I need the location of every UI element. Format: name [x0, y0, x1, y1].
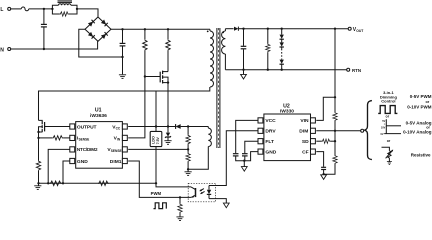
pin VCC — [112, 124, 127, 130]
node DIM terminal — [361, 129, 364, 132]
wire bridge minus to cap bottom — [79, 29, 123, 57]
transformer T1 secondary winding — [222, 29, 226, 70]
svg-text:GND: GND — [77, 159, 88, 165]
svg-text:Control: Control — [381, 98, 395, 103]
wire L to fuse — [11, 8, 22, 10]
pin DRV — [258, 128, 276, 134]
pin VIN-U2 — [300, 118, 315, 124]
pin NTC/DIM2 — [70, 147, 98, 152]
diode Z1 zener to ground — [164, 127, 171, 145]
resistor R-aux-bottom — [186, 149, 190, 169]
wire DC bus — [111, 28, 210, 30]
svg-text:OUT: OUT — [356, 29, 364, 33]
svg-text:CC: CC — [116, 126, 121, 130]
node bus junctions — [121, 28, 123, 30]
LED string D1..Dn — [280, 29, 284, 71]
svg-text:U1: U1 — [95, 107, 102, 113]
opto-coupler OC1 — [188, 183, 215, 202]
svg-text:or: or — [387, 139, 391, 143]
svg-text:N: N — [0, 47, 4, 53]
svg-text:RTN: RTN — [352, 68, 361, 73]
ground earth aux — [185, 169, 192, 175]
pin VIN — [114, 135, 128, 141]
wire choke to bridge — [77, 9, 98, 17]
PWM square wave icon — [378, 106, 397, 114]
wire GND-U2 drop — [244, 152, 258, 161]
svg-text:DIM1: DIM1 — [110, 159, 122, 165]
svg-text:U2: U2 — [283, 103, 290, 109]
node VOUT terminal — [348, 27, 364, 33]
bridge rectifier BR1 — [85, 17, 111, 41]
wire GND drop — [63, 161, 70, 183]
transistor Q1 power MOSFET — [145, 71, 169, 127]
transformer T1 core — [217, 28, 220, 148]
svg-text:L: L — [0, 7, 3, 13]
ground earth below C-bus — [119, 75, 126, 79]
pin VSENSE — [107, 147, 127, 153]
wire VCC line — [128, 126, 175, 128]
resistor R-bus1 — [143, 29, 147, 76]
pin DIM — [299, 128, 315, 134]
svg-text:VIN: VIN — [300, 118, 309, 124]
transistor Q2 startup MOSFET — [37, 120, 70, 137]
svg-text:or: or — [425, 100, 429, 104]
diode D-out rectifier — [225, 27, 243, 31]
resistor R-sd — [316, 139, 336, 143]
wire VOUT feed down — [334, 29, 336, 98]
text right labels — [403, 94, 432, 158]
capacitor C-bus — [120, 29, 126, 74]
inductor L-aux auxiliary winding — [188, 127, 211, 170]
svg-text:FLT: FLT — [265, 139, 274, 145]
svg-text:7.5V: 7.5V — [156, 136, 160, 144]
wire primary return rail — [39, 87, 210, 120]
pin GND — [70, 158, 88, 164]
svg-text:SENSE: SENSE — [79, 138, 90, 142]
svg-text:VCC: VCC — [265, 118, 276, 124]
pin VCC-U2 — [258, 118, 276, 124]
svg-text:DRV: DRV — [265, 129, 276, 135]
wire opto collector return — [156, 183, 191, 187]
resistor R-pwm pulldown — [176, 197, 183, 220]
svg-text:iW330: iW330 — [280, 109, 294, 115]
wire VSENSE — [128, 148, 188, 150]
svg-text:0V: 0V — [381, 133, 384, 136]
text 3-in-1 Dimming Control — [380, 90, 398, 103]
resistor R-isense — [39, 136, 70, 140]
svg-text:iW3636: iW3636 — [90, 113, 107, 119]
svg-text:10V: 10V — [381, 126, 386, 129]
wire opto LED cathode to ground — [209, 199, 226, 204]
svg-text:SD: SD — [302, 139, 309, 145]
svg-text:or: or — [386, 114, 390, 118]
resistor R-div-bottom — [324, 131, 338, 174]
wire N line — [11, 41, 98, 49]
ground arrow below RTN rail — [241, 70, 247, 79]
capacitor C-flt — [242, 141, 258, 161]
LDO regulator box — [150, 91, 162, 183]
node aux R tee — [187, 125, 189, 127]
pin FLT — [258, 139, 274, 145]
PWM square wave symbol — [154, 203, 167, 209]
pin DIM1 — [110, 158, 128, 164]
node VSENSE tee — [187, 148, 189, 150]
node N terminal — [0, 47, 11, 53]
node gate junction — [144, 75, 146, 77]
svg-text:GND: GND — [265, 149, 276, 155]
ground arrow CF — [321, 175, 327, 180]
node L terminal — [0, 7, 10, 13]
node RTN terminal — [347, 68, 361, 73]
analog level icon — [381, 119, 401, 136]
svg-text:0-10V Analog: 0-10V Analog — [403, 129, 432, 134]
node ISENSE tee — [37, 137, 39, 139]
fuse F1 — [21, 7, 28, 11]
capacitor C-out — [241, 29, 247, 71]
node CF ground — [322, 173, 324, 175]
svg-text:NTC/DIM2: NTC/DIM2 — [77, 147, 98, 152]
resistor R-left-chain — [36, 138, 40, 183]
transformer T1 primary winding — [207, 29, 214, 87]
node PWM pulldown tee — [179, 196, 181, 198]
wire DIM to terminal — [316, 130, 362, 132]
brace — [365, 101, 372, 160]
wire opto LED anode to U2 DRV — [209, 131, 258, 186]
pin CF — [302, 149, 315, 155]
wire RTN rail — [225, 69, 348, 71]
svg-text:0-10V PWM: 0-10V PWM — [407, 104, 432, 109]
svg-text:Resistive: Resistive — [411, 153, 431, 158]
wire NTC/DIM2 drop — [48, 149, 70, 183]
ground earth left — [34, 183, 41, 189]
op-amp U1 iW3636 body — [76, 107, 123, 168]
node junction X-cap — [43, 8, 45, 10]
svg-text:DIM: DIM — [299, 129, 308, 135]
resistor R-ntc2 — [98, 181, 109, 185]
capacitor CX1 — [41, 9, 47, 50]
svg-text:LDO: LDO — [152, 136, 156, 144]
node U2 ground — [243, 160, 245, 162]
wire DIM1 to PWM line — [128, 161, 191, 197]
wire output top rail — [244, 28, 350, 30]
potentiometer icon — [382, 147, 394, 164]
pin GND-U2 — [258, 149, 277, 155]
resistor R-out — [266, 29, 270, 71]
svg-text:CF: CF — [302, 149, 309, 155]
ground arrow U2 — [241, 161, 247, 172]
wire VIN-U2 — [316, 97, 335, 120]
inductor L1 common-mode choke with parallel resistor — [51, 1, 78, 16]
svg-text:OUTPUT: OUTPUT — [77, 124, 97, 130]
capacitor C-cf — [316, 152, 326, 175]
pin ISENSE — [70, 135, 90, 141]
resistor R-ntc1 — [50, 181, 62, 185]
resistor R-bus2 — [166, 29, 170, 71]
wire fuse to choke — [29, 8, 53, 10]
pin SD — [302, 139, 316, 145]
wire VIN drop to U1 — [128, 77, 145, 138]
op-amp U2 iW330 body — [264, 103, 311, 160]
node aux ground — [187, 168, 189, 170]
diode D-aux pointing left — [176, 124, 209, 129]
pin OUTPUT — [70, 124, 97, 130]
LED inside opto — [207, 186, 211, 199]
svg-text:SENSE: SENSE — [111, 149, 122, 153]
svg-text:PWM: PWM — [151, 191, 162, 196]
svg-text:0-5V PWM: 0-5V PWM — [410, 94, 432, 99]
capacitor C-vcc2 — [233, 120, 258, 160]
ground arrow opto — [223, 203, 229, 208]
resistor R-div-top — [333, 97, 337, 131]
wire NTC ground rail — [39, 182, 157, 184]
resistor R-aux-top — [186, 127, 190, 150]
